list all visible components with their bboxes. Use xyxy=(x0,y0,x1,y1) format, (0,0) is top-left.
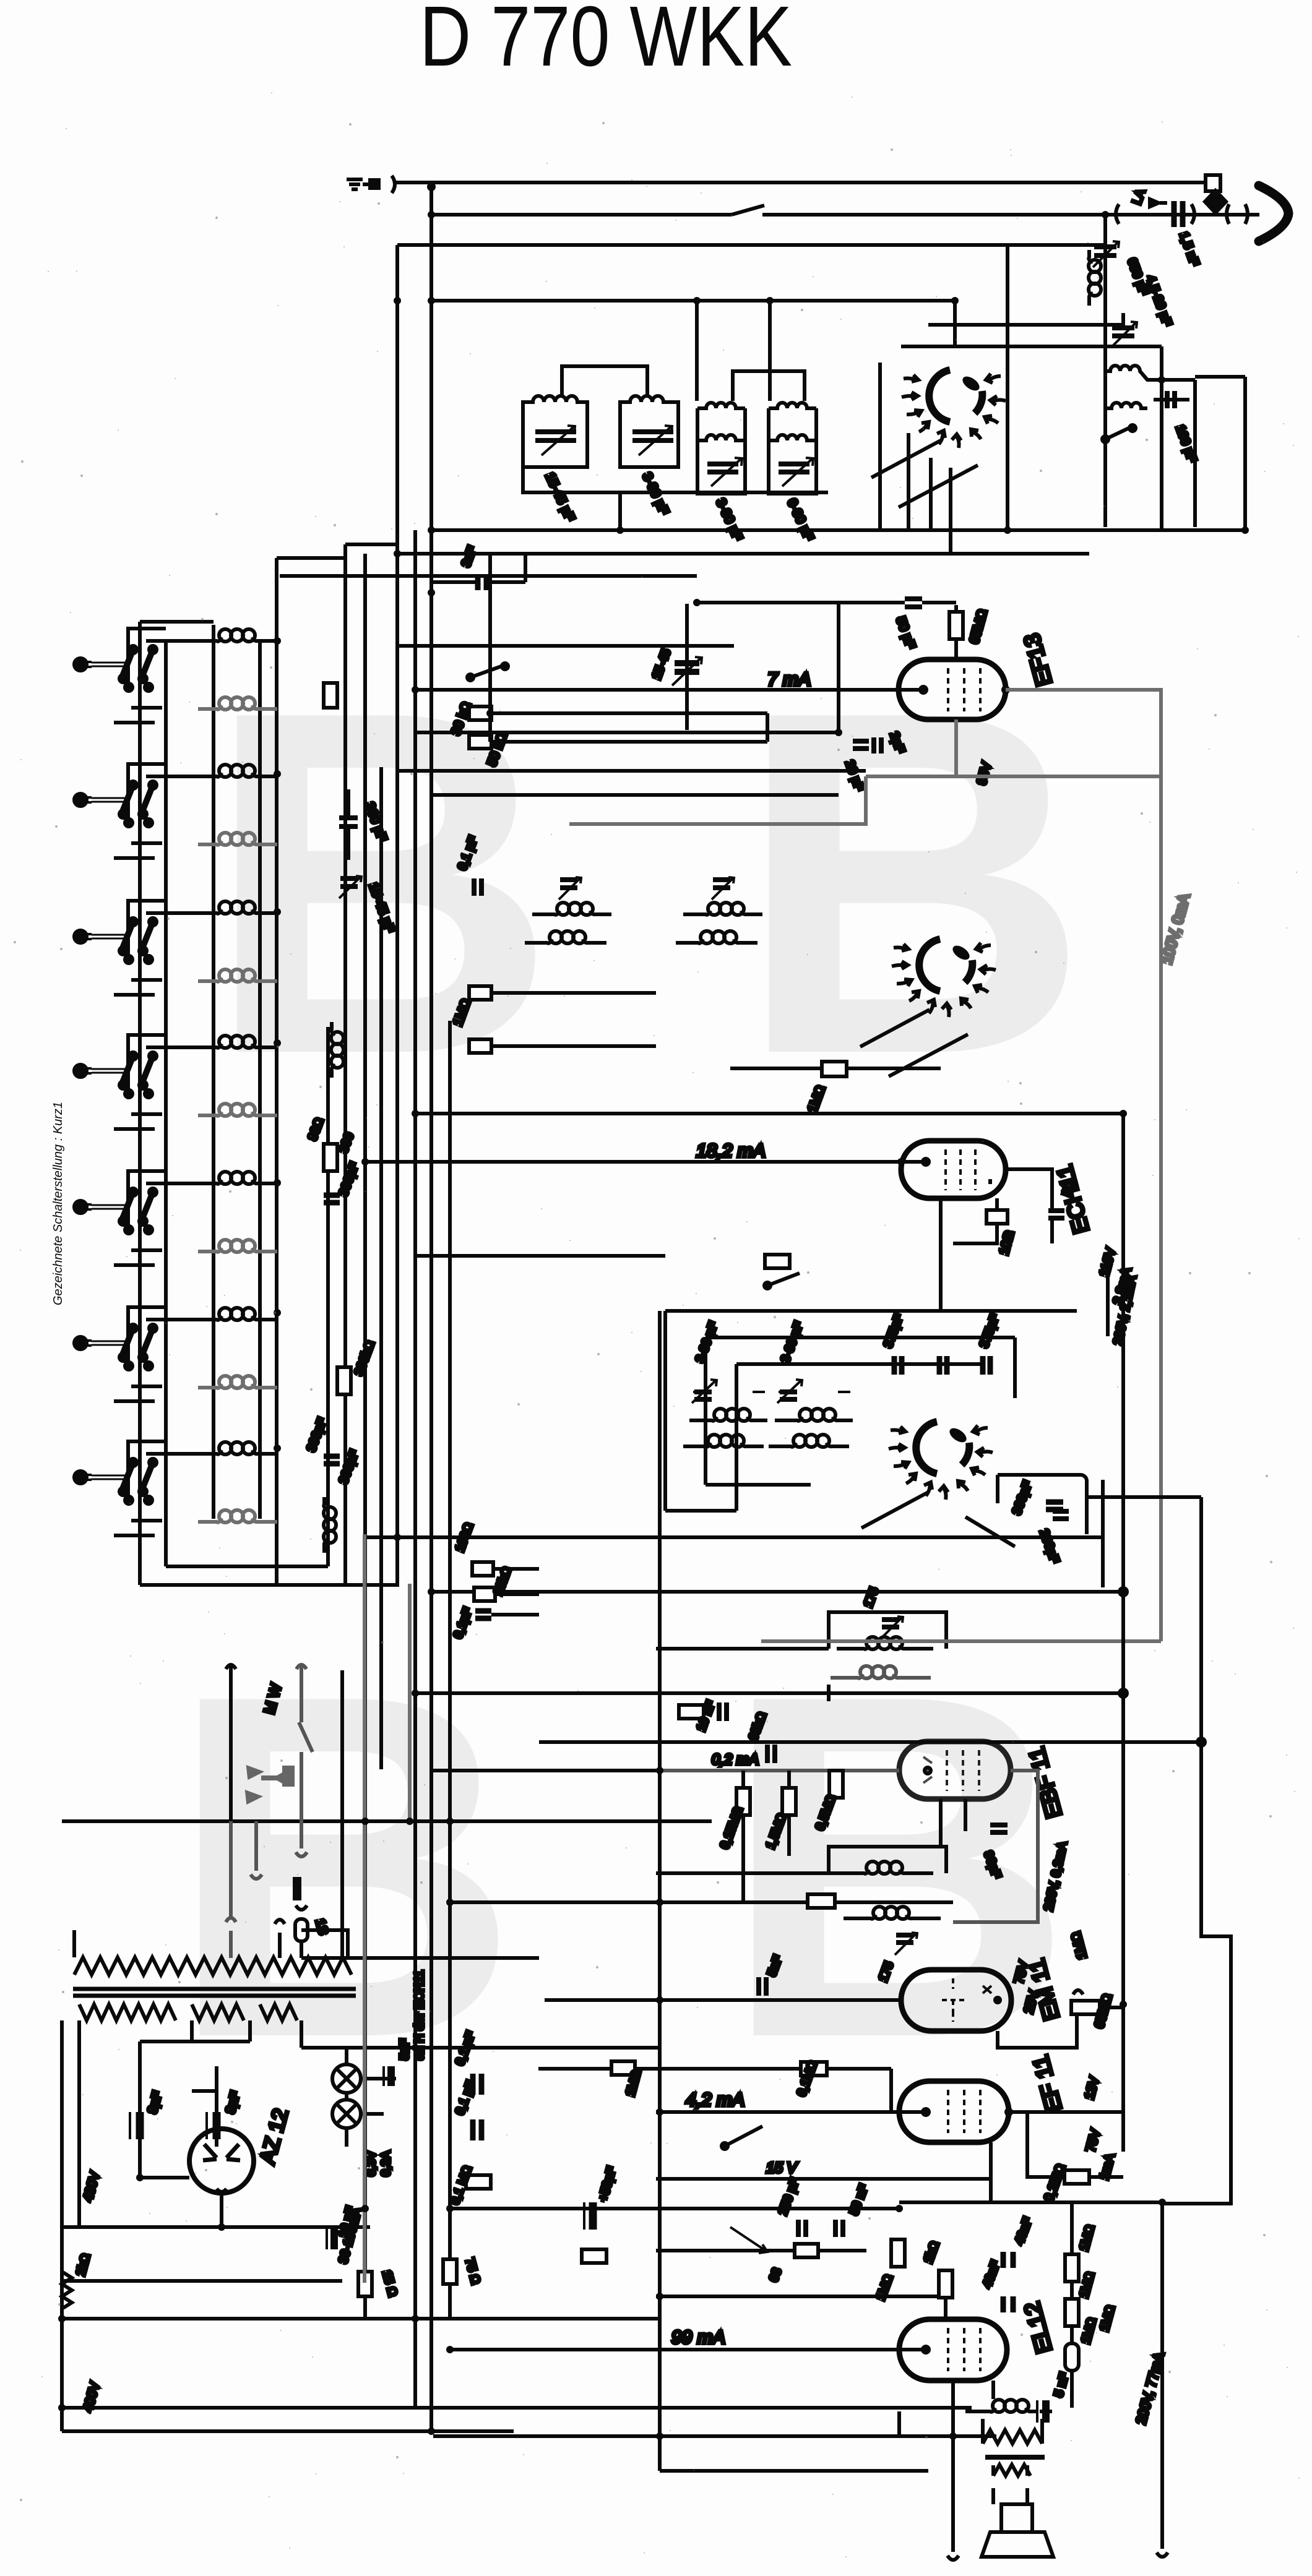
pilot lamps xyxy=(332,1970,426,2176)
switch blade AF xyxy=(725,2126,762,2146)
wire gray row y2653 xyxy=(761,1639,1102,1643)
svg-text:15 V: 15 V xyxy=(766,2160,798,2176)
wire frame3 xyxy=(736,1364,984,1511)
wire osc grid line xyxy=(415,1254,665,1258)
switch blade S3b xyxy=(965,1517,1015,1547)
wire 15V line xyxy=(656,2142,991,2202)
frame closings xyxy=(665,1485,811,1511)
band switch wafer S3 xyxy=(74,901,198,995)
wire triode grid xyxy=(1006,1169,1052,1243)
wire H4 xyxy=(431,299,955,303)
cap 50uF+ xyxy=(589,2202,597,2230)
wire y3570 xyxy=(450,2207,899,2210)
wire row y3338 xyxy=(538,2067,656,2071)
wire osc top xyxy=(901,345,1162,348)
cap 300pF mid xyxy=(324,1195,340,1203)
resistor 80 Ohm xyxy=(324,1144,337,1171)
EF13 stage xyxy=(415,599,1057,793)
extra buses and rows xyxy=(301,544,1205,2149)
cap 200pF osc out xyxy=(1046,1502,1063,1509)
svg-text:18,2 mA: 18,2 mA xyxy=(696,1141,766,1161)
coil vertical mid1 xyxy=(331,1022,343,1078)
left band switch block xyxy=(140,544,397,1585)
wire ECH11 cathode drop xyxy=(939,1198,943,1311)
coil 650 branch xyxy=(1089,250,1101,306)
wire vertical bus x727 xyxy=(448,1021,452,2320)
wire rail x447 xyxy=(275,558,278,1585)
resistor 1,5MOhm h xyxy=(808,1894,835,1908)
antenna coil L-A xyxy=(1105,366,1152,380)
band switch wafer S7 xyxy=(74,1441,198,1535)
wire EF11 frame jog xyxy=(1087,1497,1231,2204)
wire grid gray from EF13 xyxy=(866,690,1161,1641)
tube AZ12 xyxy=(189,2129,254,2193)
coil L14 xyxy=(198,1510,277,1522)
tube EF13 xyxy=(899,659,1006,719)
wire secondary leads xyxy=(62,2020,301,2431)
watermark row2 xyxy=(167,1594,1074,2139)
wire EBF11 cathode drops xyxy=(941,1799,965,1847)
svg-text:4,2 mA: 4,2 mA xyxy=(686,2090,744,2110)
secondary HV winding xyxy=(79,2004,176,2020)
wire y2573 xyxy=(431,1590,1123,1594)
band switch wafer S2 xyxy=(74,764,198,858)
cap 20pF xyxy=(853,741,869,749)
svg-text:99 mA: 99 mA xyxy=(671,2327,725,2348)
wire screen row xyxy=(656,2295,939,2298)
wire rail x558 xyxy=(343,544,347,1585)
switch blade S3a xyxy=(861,1492,928,1528)
trimmer 4,5-20pF xyxy=(1112,328,1134,336)
svg-text:7 mA: 7 mA xyxy=(767,669,811,690)
svg-text:6,3V: 6,3V xyxy=(365,2150,378,2176)
tap forks xyxy=(226,1821,236,1958)
coil L9 xyxy=(198,1172,277,1184)
cap 3nF xyxy=(478,574,486,590)
wire spider drop xyxy=(953,301,957,346)
wire column xyxy=(1070,2202,1074,2408)
vertical coil osc xyxy=(324,1497,336,1553)
wire volume row extension xyxy=(450,1900,712,1904)
trimmer bank3 group a xyxy=(683,1320,767,1447)
resistor 0,3 xyxy=(466,2175,491,2189)
cap 300pF mid2 xyxy=(324,1456,340,1464)
switch contact on line xyxy=(470,666,501,677)
heater winding xyxy=(260,2004,297,2020)
coil pair A xyxy=(547,903,603,915)
switch blade S2a xyxy=(860,1010,930,1047)
rectifier AZ12 xyxy=(81,2041,293,2413)
wire AZ12 anode top xyxy=(220,2193,223,2227)
coil L1 xyxy=(198,629,277,642)
padder group G3 xyxy=(697,403,745,543)
wire spider1 stubs xyxy=(908,433,951,554)
wire bottom rails xyxy=(62,2227,972,2431)
coupling 300pF frame xyxy=(998,1475,1087,1534)
core bars xyxy=(985,2455,1045,2460)
secondary zigzag xyxy=(993,2465,1030,2476)
wire H2 line to speaker plug xyxy=(431,213,1259,217)
cap 0,1uF a xyxy=(474,878,481,896)
rotary switch spider S1 xyxy=(902,370,1006,448)
wire row y1044 xyxy=(397,644,734,648)
resistor 0,1MOhm top xyxy=(801,2062,827,2076)
wire detector rows xyxy=(431,1771,718,2000)
trimmer 15-45 ef13 xyxy=(685,604,689,730)
lamp 1 xyxy=(332,2064,361,2093)
coil L2 xyxy=(198,697,277,710)
wire y3792 right xyxy=(897,2411,901,2436)
resistor 0,3MOhm xyxy=(679,1705,704,1719)
wire lamp leads xyxy=(347,2048,396,2147)
detector cluster xyxy=(679,1699,1008,1908)
antenna chevron arrow xyxy=(1259,186,1288,241)
secondary LV winding xyxy=(192,2004,244,2020)
cap 40nF b xyxy=(1003,2296,1013,2312)
ECH11 stage xyxy=(365,1062,1139,2152)
switch blade xyxy=(1105,428,1129,439)
wire H7 bottom of top block xyxy=(431,528,1245,532)
cap 50pF xyxy=(905,599,922,607)
wire rail x268 xyxy=(164,640,168,1566)
wire speaker leads xyxy=(983,2419,1042,2504)
coil L8 xyxy=(198,1104,277,1116)
wire vertical bus x590 xyxy=(363,554,367,2319)
wire y2485 xyxy=(365,1535,1103,1539)
wire vertical bus x671 xyxy=(413,530,417,2408)
wire grid stopper xyxy=(743,1771,789,1902)
band switch wafer S5 xyxy=(74,1171,198,1265)
antenna plug D xyxy=(1206,175,1220,200)
oscillator section frames xyxy=(280,433,1108,1511)
resistor 0,1MOhm xyxy=(469,1039,491,1053)
wire rail x420 xyxy=(258,641,262,1519)
wire primary leads xyxy=(74,1930,348,1957)
wire padder risers xyxy=(562,366,805,401)
coil L10 xyxy=(198,1240,277,1252)
wire heater tap row xyxy=(301,1956,539,1960)
resistor 20k col xyxy=(474,1587,495,1601)
wire coil1 to right xyxy=(1152,378,1195,382)
wire gray bus x662 xyxy=(408,1584,412,1821)
ground symbol xyxy=(347,179,369,189)
resistor 300kOhm xyxy=(337,1367,351,1394)
wire y2816 xyxy=(539,1740,1201,1744)
wire frame2 xyxy=(706,1337,1015,1485)
wire resistor leads xyxy=(491,713,767,742)
padder group G4 xyxy=(769,403,816,543)
resistor zigzag xyxy=(62,2272,72,2309)
wire box left xyxy=(878,363,882,530)
tube ECH11 xyxy=(901,1141,1006,1198)
padder group G1 xyxy=(523,396,587,523)
wire row y1285 xyxy=(431,793,839,797)
resistor 1MOhm xyxy=(469,986,491,1000)
second mixer trimmer bank xyxy=(451,835,762,1053)
tube EL12 xyxy=(899,2319,1007,2381)
resistor 15 Ohm xyxy=(358,2272,372,2296)
coil L12 xyxy=(198,1376,277,1388)
wire 4,2mA anode xyxy=(656,2110,926,2114)
wire ift2 lead xyxy=(656,1871,837,1875)
trimmer 650pF xyxy=(1094,247,1116,255)
cap 0,1uF psu xyxy=(330,2227,338,2249)
wire stubs xyxy=(491,993,656,1046)
cap 5nF xyxy=(759,1977,766,1996)
coil L11 xyxy=(198,1308,277,1320)
wire y2737 xyxy=(415,1691,1123,1695)
cap 10nF xyxy=(719,1702,727,1721)
cap 0,1uF a xyxy=(473,2074,481,2095)
wire x1782 xyxy=(1101,1480,1105,1587)
wire rail x530 xyxy=(326,1027,330,1566)
coil L3 xyxy=(198,765,277,777)
wire right lead xyxy=(1157,2202,1168,2557)
wire 7mA anode line xyxy=(415,688,923,692)
resistor 1MOhm r1 xyxy=(1065,2254,1079,2282)
wire top block inner xyxy=(695,301,699,401)
svg-text:0,3A: 0,3A xyxy=(379,2150,393,2176)
coil L4 xyxy=(198,833,277,845)
wire 18,2mA anode xyxy=(365,1160,926,1164)
wire heater row xyxy=(301,2046,660,2050)
wire H3 xyxy=(397,243,1105,247)
wire main vertical bus x697 xyxy=(429,187,433,2431)
IF transformer 1 xyxy=(656,1586,946,1701)
tube EM11 xyxy=(901,1970,1011,2031)
svg-text:0,2 mA: 0,2 mA xyxy=(712,1751,759,1768)
cap 50nF xyxy=(835,2220,843,2237)
wire frame1 xyxy=(665,1256,1108,1511)
coil L13 xyxy=(198,1442,277,1454)
resistor 0,15MOhm xyxy=(736,1788,750,1815)
resistor 100 Ohm xyxy=(986,1210,1008,1224)
wire rail x345 xyxy=(212,625,215,1519)
tube EBF11 xyxy=(899,1741,1011,1799)
wire pickup down xyxy=(296,1752,307,1857)
wire gray bus x589 xyxy=(363,1534,366,2283)
resistor 0,2MOhm cath xyxy=(1064,2170,1089,2184)
band switch wafer S1 xyxy=(74,629,198,723)
wire bottom ties xyxy=(140,1566,397,1585)
wire y931 xyxy=(280,574,697,578)
pickup / MW-LA switch area xyxy=(62,1665,712,1958)
resistor 50 Ohm upper xyxy=(324,683,337,708)
series cap 1,5nF xyxy=(1174,201,1183,227)
wire bus x792 xyxy=(488,554,492,742)
wire bus x553 xyxy=(340,1670,344,1958)
wire y2665 left xyxy=(656,1647,829,1651)
fuse 1S xyxy=(295,1919,308,1941)
cap 2uF xyxy=(874,737,881,753)
wire vertical bus x642 xyxy=(395,245,399,1587)
wire osc right vertical xyxy=(1160,346,1163,530)
dial arrow xyxy=(1150,199,1167,207)
resistor mid xyxy=(443,2259,457,2284)
IF transformer 2 xyxy=(829,1847,946,1984)
wire y1184 xyxy=(415,603,839,732)
rotary switch spider S2 xyxy=(892,939,996,1017)
cap in series xyxy=(293,1877,301,1900)
antenna coupling cap xyxy=(370,180,379,188)
resistor psu2 xyxy=(582,2249,606,2263)
wire bottom rails right xyxy=(433,2436,996,2471)
wire em grid xyxy=(998,2014,1077,2048)
core xyxy=(73,1989,356,1996)
mixer blade wires xyxy=(871,440,978,507)
wire 650pF branch vertical xyxy=(1103,215,1107,527)
svg-text:B: B xyxy=(721,1594,1074,2139)
resistor 1MOhm r3 xyxy=(1065,2343,1079,2371)
cap 8uF a xyxy=(136,2112,144,2139)
connector arcs xyxy=(1116,204,1248,224)
antenna coil L-B xyxy=(1105,403,1147,408)
wire anode line left xyxy=(656,1769,899,1772)
wire MW stub xyxy=(226,1665,236,1821)
resistor 1MOhm r2 xyxy=(1065,2299,1079,2326)
switch on H2 xyxy=(732,205,764,215)
band switch wafer S4 xyxy=(74,1035,198,1129)
wire rail x226 xyxy=(138,622,142,1585)
plug diamond xyxy=(1205,191,1226,213)
tube EF11 xyxy=(899,2081,1009,2142)
resistor 65MOhm em xyxy=(1071,2001,1100,2014)
switch blade S2b xyxy=(889,1034,968,1076)
cap 360pF xyxy=(339,818,358,826)
resistor 1kOhm grid xyxy=(939,2270,952,2298)
wire gray anode frame xyxy=(953,1771,1038,1922)
resistor 0,5MOhm vert xyxy=(829,1771,843,1798)
wire antenna top line H1 xyxy=(396,181,1207,184)
EBF11 stage xyxy=(656,1741,1070,1922)
lamp 2 xyxy=(332,2100,361,2128)
cap 63kOhm cap xyxy=(767,1745,775,1763)
switch blade S1b xyxy=(899,465,978,507)
rotary switch spider S3 xyxy=(889,1422,993,1500)
wire anode line xyxy=(450,2348,926,2351)
cap 8uF b xyxy=(213,2112,221,2139)
switch LA blade xyxy=(296,1665,313,1752)
cap 100pF xyxy=(1167,391,1175,408)
wire volume line xyxy=(712,1900,953,1904)
output transformer primary coil xyxy=(983,2400,1038,2412)
trimmer bank3 group b xyxy=(769,1320,853,1447)
switch blade S1a xyxy=(871,440,941,478)
primary winding xyxy=(74,1957,352,1975)
coil L5 xyxy=(198,901,277,914)
resistor 50kOhm xyxy=(469,735,491,749)
wire padder bottom rail xyxy=(523,433,828,530)
coil L6 xyxy=(198,969,277,982)
svg-text:D 770 WKK: D 770 WKK xyxy=(420,0,792,84)
wire cap to frame xyxy=(1154,398,1189,401)
wire x1066 xyxy=(658,1311,662,2471)
resistor 0,5MOhm screen xyxy=(954,605,958,659)
cap 5nF out xyxy=(1042,2400,1050,2423)
wire mains feed xyxy=(62,1819,712,1823)
wire top tie xyxy=(140,544,397,622)
pickup arrows xyxy=(246,1767,293,1803)
mains dropper xyxy=(62,2205,972,2431)
cap 5nF heater xyxy=(387,2066,395,2086)
cap 90pF xyxy=(990,1825,1008,1832)
potentiometer arrow xyxy=(730,2227,767,2253)
coil L7 xyxy=(198,1036,277,1048)
wire vertical bus x616 xyxy=(379,767,383,1769)
coil pair B xyxy=(698,903,754,915)
wire box right xyxy=(1006,245,1009,530)
wire y3560 link xyxy=(899,2200,1162,2204)
EL12 output stage xyxy=(433,1311,1231,2560)
wire to trimmer 4,5-20 xyxy=(928,313,1123,325)
plug arc xyxy=(392,176,395,193)
cap 250pF xyxy=(798,2220,806,2237)
cluster frame xyxy=(1195,377,1245,530)
band switch wafer S6 xyxy=(74,1307,198,1401)
field coil zigzag xyxy=(983,2430,1042,2444)
wire cathode down xyxy=(953,2381,993,2552)
power transformer xyxy=(62,1930,539,2431)
svg-text:B: B xyxy=(736,610,1090,1156)
cap 0,1uF col xyxy=(475,1611,491,1618)
wire B+ line to right bus xyxy=(415,1114,1123,2152)
EM11 tuning eye xyxy=(718,1930,1123,2101)
AF coupling column xyxy=(450,2176,1099,2408)
caps 375pF row xyxy=(894,1356,902,1375)
speaker xyxy=(1001,2504,1032,2532)
resistor 1,5MOhm xyxy=(782,1788,796,1815)
resistor 30kOhm xyxy=(469,706,491,720)
cap 0,1uF b xyxy=(473,2119,481,2140)
resistor 100 Ohm col xyxy=(472,1562,493,1576)
wire gray agc xyxy=(569,776,866,824)
resistor 63 xyxy=(795,2244,818,2257)
wire H8 xyxy=(397,552,1089,556)
trimmer 15-45 xyxy=(340,878,358,887)
wire row 3638 xyxy=(656,2249,866,2252)
resistor row3338 xyxy=(611,2061,635,2075)
mid components left of center xyxy=(339,663,767,935)
cap 40nF a xyxy=(1003,2252,1013,2268)
trimmer 3-30 c xyxy=(713,880,730,888)
hook left xyxy=(947,2556,959,2560)
cap 50pF osc xyxy=(1048,1211,1064,1218)
decoupling caps column xyxy=(443,2030,656,2286)
EF11 AF stage xyxy=(635,2053,1123,2204)
wire EM11 anode xyxy=(718,1998,901,2002)
resistor 1MOhm top xyxy=(822,1062,847,1076)
switch contact mid xyxy=(767,1273,800,1286)
wire xyxy=(768,301,772,401)
resistor 1MOhm v xyxy=(891,2239,905,2267)
wire cap rails xyxy=(140,2041,250,2178)
middle column components xyxy=(304,683,378,1486)
svg-text:Gezeichnete Schalterstellung :: Gezeichnete Schalterstellung : Kurz1 xyxy=(51,1102,65,1305)
trimmer 15-45 b xyxy=(560,880,577,888)
padder group G2 xyxy=(620,396,678,517)
resistor 50kOhm osc xyxy=(765,1255,790,1268)
watermark row1 xyxy=(204,610,1090,1156)
wire row y1246 xyxy=(397,769,866,773)
